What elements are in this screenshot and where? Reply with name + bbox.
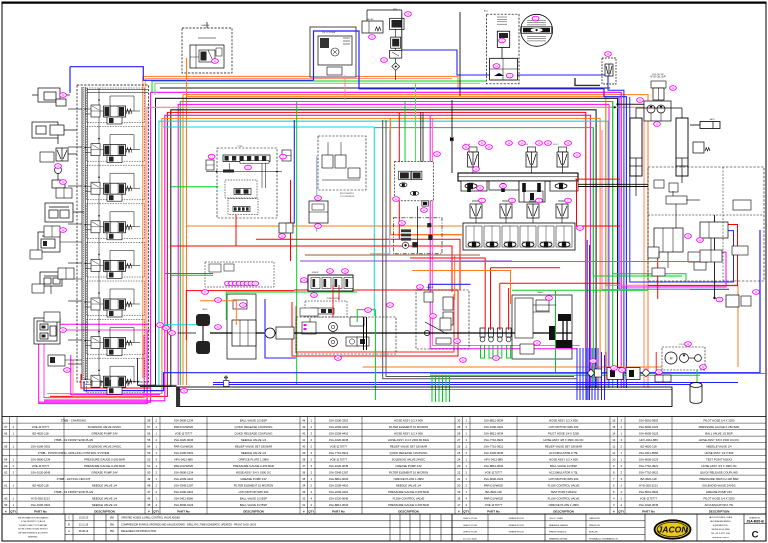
wire	[213, 384, 700, 386]
svg-text:JSA-6600-0123: JSA-6600-0123	[639, 431, 659, 435]
wire	[256, 239, 460, 290]
valve stack T4	[390, 18, 404, 29]
valve spool glyph	[486, 242, 498, 247]
balloon label	[236, 281, 243, 286]
wire	[44, 107, 644, 399]
svg-text:TEST POINT M16X2: TEST POINT M16X2	[706, 457, 732, 461]
wire	[508, 288, 510, 330]
wire	[186, 58, 188, 96]
valve section	[466, 226, 482, 247]
oil drum B12	[690, 383, 702, 404]
svg-text:53: 53	[147, 451, 151, 455]
wire	[438, 375, 440, 402]
wire	[300, 260, 512, 262]
svg-text:RELIEF VALVE SET 180 BAR: RELIEF VALVE SET 180 BAR	[545, 444, 582, 448]
wire	[70, 67, 314, 81]
svg-text:NEEDLE VALVE 1/4: NEEDLE VALVE 1/4	[92, 503, 118, 507]
wire	[39, 324, 148, 403]
wire	[410, 258, 485, 330]
svg-text:JSA-0106-3301: JSA-0106-3301	[329, 418, 349, 422]
svg-text:65: 65	[4, 444, 8, 448]
wire	[430, 373, 766, 375]
balloon label	[565, 198, 572, 203]
wire	[605, 352, 607, 368]
test block M7 (dash-dot)	[393, 218, 442, 254]
title block	[2, 513, 766, 515]
valve bank section 1	[87, 88, 145, 123]
svg-text:PAR-D1VW020: PAR-D1VW020	[484, 496, 504, 500]
wire	[602, 130, 690, 290]
svg-text:PILOT SUPPLY: PILOT SUPPLY	[340, 193, 355, 195]
wire	[402, 50, 608, 84]
wire	[445, 375, 447, 402]
svg-text:51: 51	[147, 464, 151, 468]
svg-text:NOT BE COPIED OR USED WITHOUT: NOT BE COPIED OR USED WITHOUT	[18, 529, 48, 531]
valve section	[550, 181, 578, 191]
svg-text:63: 63	[4, 464, 8, 468]
svg-text:JSA-6600-0123: JSA-6600-0123	[484, 477, 504, 481]
wire	[398, 112, 400, 239]
svg-text:CTRL: CTRL	[237, 146, 243, 148]
svg-text:IS THE PROPERTY OF JACON: IS THE PROPERTY OF JACON	[21, 520, 46, 523]
svg-text:42: 42	[302, 431, 306, 435]
svg-text:JSA-6600-0123: JSA-6600-0123	[174, 503, 194, 507]
balloon label	[335, 356, 342, 361]
svg-text:www jacon com au: www jacon com au	[712, 537, 729, 539]
pilot row B4a (dashed)	[305, 301, 347, 317]
wire	[597, 348, 599, 400]
balloon label	[169, 331, 176, 336]
balloon label	[700, 365, 707, 370]
wire	[657, 240, 659, 299]
wire	[658, 252, 660, 258]
valve section	[489, 181, 519, 190]
wire	[332, 285, 334, 317]
valve spool glyph	[504, 242, 516, 247]
mid sub-block	[519, 181, 545, 202]
svg-text:JTMB - CHARGING: JTMB - CHARGING	[61, 418, 87, 422]
svg-text:VOE-1170777: VOE-1170777	[640, 496, 658, 500]
balloon label	[229, 281, 236, 286]
wire	[144, 79, 146, 378]
svg-text:BALL VALVE 1/2 BSP: BALL VALVE 1/2 BSP	[240, 496, 267, 500]
svg-text:JSA-0106-3301: JSA-0106-3301	[484, 425, 504, 429]
wire	[143, 76, 458, 88]
valve bank section 4	[87, 204, 145, 239]
svg-text:20: 20	[457, 483, 461, 487]
svg-text:JTMB - LIFTING CIRCUIT: JTMB - LIFTING CIRCUIT	[57, 477, 91, 481]
svg-text:ORIFICE PLATE 1.2MM: ORIFICE PLATE 1.2MM	[393, 477, 424, 481]
svg-text:50: 50	[147, 470, 151, 474]
svg-text:HOSE ASSY 1/2 X 800: HOSE ASSY 1/2 X 800	[549, 457, 578, 461]
svg-text:JSA-0106-3301: JSA-0106-3301	[31, 444, 51, 448]
svg-text:GREASE PUMP 24V: GREASE PUMP 24V	[395, 464, 421, 468]
valve spool glyph	[540, 242, 552, 247]
svg-text:QTY: QTY	[463, 509, 469, 513]
wire	[68, 262, 82, 264]
wire	[442, 375, 444, 402]
wire	[140, 110, 596, 388]
svg-text:46: 46	[147, 496, 151, 500]
svg-text:JSA-1020-0045: JSA-1020-0045	[329, 496, 349, 500]
svg-text:VOE-1170777: VOE-1170777	[32, 464, 50, 468]
wire	[296, 294, 454, 352]
svg-text:QUICK RELEASE COUPLING: QUICK RELEASE COUPLING	[235, 425, 273, 429]
svg-text:JSA-1020-0045: JSA-1020-0045	[31, 470, 51, 474]
svg-text:SOL C: SOL C	[553, 144, 559, 146]
svg-text:CHECK PLUS: CHECK PLUS	[463, 518, 478, 520]
balloon label	[163, 326, 170, 331]
svg-text:39: 39	[302, 451, 306, 455]
wire	[585, 348, 587, 400]
balloon label	[280, 154, 287, 159]
shaft pump symbols	[480, 328, 485, 337]
svg-text:HYD-550-2213: HYD-550-2213	[639, 483, 658, 487]
wire	[39, 92, 622, 402]
svg-text:JSA-3345-1287: JSA-3345-1287	[329, 470, 349, 474]
balloon label	[454, 339, 461, 344]
svg-text:28: 28	[457, 431, 461, 435]
svg-text:HYD OIL S/P: HYD OIL S/P	[652, 74, 664, 76]
svg-text:BALL VALVE 1/2 BSP: BALL VALVE 1/2 BSP	[550, 464, 577, 468]
wire	[152, 81, 486, 92]
valve row B1	[308, 275, 353, 291]
wire	[589, 245, 591, 400]
svg-text:FLOW CONTROL VALVE: FLOW CONTROL VALVE	[548, 496, 580, 500]
cylinder M11b	[676, 118, 688, 176]
svg-text:NEEDLE VALVE 1/4: NEEDLE VALVE 1/4	[241, 451, 267, 455]
svg-text:GREGORY: GREGORY	[589, 518, 601, 520]
svg-text:BZ-4520-118: BZ-4520-118	[485, 490, 502, 494]
svg-text:VOE-1170777: VOE-1170777	[330, 457, 348, 461]
svg-text:SOLENOID VALVE 24VDC: SOLENOID VALVE 24VDC	[88, 444, 122, 448]
svg-text:VOE-1170777: VOE-1170777	[485, 503, 503, 507]
wire	[390, 118, 462, 234]
svg-text:GREASE PUMP 24V: GREASE PUMP 24V	[91, 431, 117, 435]
svg-text:JSA-0900-1234: JSA-0900-1234	[174, 418, 194, 422]
wire	[499, 283, 501, 330]
wire	[507, 345, 511, 358]
wire	[686, 199, 700, 201]
balloon label	[421, 208, 428, 213]
wire	[344, 75, 346, 100]
svg-text:JSA-8812-0034: JSA-8812-0034	[329, 503, 349, 507]
gauge block M6 (dashed)	[394, 162, 433, 201]
wire	[305, 254, 480, 256]
remote valve L12	[58, 268, 74, 279]
svg-text:C: C	[752, 530, 759, 541]
solenoid valve T7 (dashed)	[602, 58, 616, 84]
svg-text:VOE-1170777: VOE-1170777	[330, 444, 348, 448]
wire	[71, 355, 160, 395]
svg-text:JSA-7710-0921: JSA-7710-0921	[639, 464, 659, 468]
wire	[68, 185, 82, 187]
svg-text:RELIEF: RELIEF	[366, 19, 374, 21]
table column dividers	[299, 417, 301, 514]
transmission B6	[512, 295, 572, 359]
pilot comp right of M1	[282, 150, 291, 161]
balloon label	[64, 368, 71, 373]
wire	[81, 374, 150, 388]
svg-text:BZ-4520-118: BZ-4520-118	[32, 483, 49, 487]
rock drill block M13 (dashed)	[648, 167, 764, 281]
valve cluster L5	[45, 203, 73, 222]
wire	[575, 178, 620, 180]
wire	[138, 98, 618, 388]
valve L3	[56, 148, 68, 161]
wire	[594, 348, 596, 400]
svg-text:HOSE ASSY 1/2 X 800: HOSE ASSY 1/2 X 800	[549, 418, 578, 422]
drive coupling B3	[265, 328, 275, 338]
wire	[160, 87, 610, 89]
svg-text:PART No: PART No	[642, 509, 655, 513]
valve M12	[693, 142, 704, 153]
valve block B4c	[350, 317, 364, 326]
svg-text:13: 13	[612, 438, 616, 442]
solenoid valve	[556, 204, 568, 218]
wire	[127, 380, 129, 386]
svg-text:61: 61	[4, 483, 8, 487]
svg-text:HFX-3412-889: HFX-3412-889	[484, 457, 503, 461]
steering block B7	[227, 294, 256, 359]
svg-text:JSA-2209-4410: JSA-2209-4410	[329, 431, 349, 435]
svg-text:10.02.20: 10.02.20	[79, 517, 89, 520]
wire	[428, 284, 430, 290]
svg-text:AXLE: AXLE	[202, 308, 208, 311]
svg-text:16: 16	[612, 418, 616, 422]
svg-text:RESERVED.: RESERVED.	[28, 536, 38, 538]
balloon label	[181, 389, 188, 394]
wire	[578, 186, 648, 188]
svg-text:24: 24	[457, 457, 461, 461]
svg-text:BALL VALVE 1/2 BSP: BALL VALVE 1/2 BSP	[240, 503, 267, 507]
balloon label	[405, 12, 412, 17]
svg-text:DRAWING DETAIL: DRAWING DETAIL	[549, 537, 568, 540]
svg-text:RELIEF VALVE SET 180 BAR: RELIEF VALVE SET 180 BAR	[390, 444, 427, 448]
signature grid	[389, 514, 391, 541]
balloon label	[477, 186, 484, 191]
svg-text:PRV: PRV	[393, 9, 398, 11]
balloon label	[301, 278, 308, 283]
svg-text:HEATHER GREEN: HEATHER GREEN	[549, 524, 568, 527]
JACON logo	[696, 514, 698, 541]
solenoid bank M8-M9 manifold	[458, 173, 578, 181]
balloon label	[506, 141, 513, 146]
wire	[187, 96, 606, 388]
svg-text:NEEDLE VALVE 1/4: NEEDLE VALVE 1/4	[706, 444, 732, 448]
balloon label	[202, 290, 209, 295]
svg-text:MJR-200: MJR-200	[589, 532, 599, 534]
svg-text:FILTER ELEMENT 10 MICRON: FILTER ELEMENT 10 MICRON	[234, 483, 273, 487]
svg-text:JSA-1020-0045: JSA-1020-0045	[484, 451, 504, 455]
svg-text:30: 30	[457, 418, 461, 422]
svg-text:ORIFICE PLATE 1.2MM: ORIFICE PLATE 1.2MM	[548, 503, 579, 507]
inner dark pair	[363, 317, 365, 350]
svg-text:JSA-5501-9902: JSA-5501-9902	[639, 418, 659, 422]
svg-text:NEEDLE VALVE 1/4: NEEDLE VALVE 1/4	[396, 483, 422, 487]
wire blue loop T2	[314, 31, 605, 97]
wire	[601, 352, 603, 400]
valve M13c	[654, 180, 664, 188]
wire	[586, 240, 588, 400]
wire	[591, 348, 593, 400]
wire	[459, 12, 461, 96]
wire	[68, 223, 82, 225]
pilot cluster above B7 (dashed)	[205, 262, 274, 287]
wire	[489, 345, 493, 358]
wire	[604, 355, 606, 400]
svg-text:55: 55	[147, 438, 151, 442]
wire	[579, 348, 581, 400]
balloon label	[315, 224, 322, 229]
wire	[608, 84, 624, 388]
wire	[68, 300, 82, 302]
balloon label	[225, 281, 232, 286]
svg-text:44: 44	[302, 418, 306, 422]
svg-text:JSA-1020-0045: JSA-1020-0045	[174, 438, 194, 442]
gear detail B6	[520, 344, 534, 354]
balloon label	[240, 281, 247, 286]
valve spool glyph	[468, 242, 480, 247]
svg-text:JSA-0900-1234: JSA-0900-1234	[31, 457, 51, 461]
svg-text:33: 33	[302, 490, 306, 494]
balloon label	[215, 298, 222, 303]
main valve bank VB1	[77, 85, 149, 382]
balloon label	[212, 59, 219, 64]
svg-text:67: 67	[4, 425, 8, 429]
wire	[187, 225, 463, 227]
wire	[576, 348, 578, 400]
pilot valve M4	[309, 201, 328, 223]
svg-text:27: 27	[457, 438, 461, 442]
cylinder M11a	[630, 118, 642, 176]
wire	[210, 332, 572, 334]
valve section	[484, 226, 500, 247]
wire	[490, 268, 492, 330]
wire	[430, 115, 577, 349]
wire	[91, 380, 93, 386]
accumulator unit T5 (dashed)	[487, 14, 520, 84]
svg-text:HYD MOTOR OMS 200: HYD MOTOR OMS 200	[239, 490, 269, 494]
svg-text:JSA-8812-0034: JSA-8812-0034	[329, 477, 349, 481]
sol pilot glyph	[450, 137, 454, 141]
svg-text:NEEDLE VALVE 1/4: NEEDLE VALVE 1/4	[92, 483, 118, 487]
valve section	[461, 181, 487, 191]
svg-text:CHECK PLUS: CHECK PLUS	[463, 532, 478, 534]
manifold M1 (dashed)	[217, 148, 277, 218]
brake valve cluster B5 (dashed)	[416, 290, 469, 349]
svg-text:49: 49	[147, 477, 151, 481]
wire	[635, 176, 637, 196]
balloon label	[232, 281, 239, 286]
solenoid valve	[469, 147, 477, 152]
wire	[675, 204, 677, 228]
svg-text:SOLENOID VALVE 24VDC: SOLENOID VALVE 24VDC	[702, 483, 736, 487]
wire	[171, 274, 213, 276]
balloon label	[381, 58, 388, 63]
svg-text:59: 59	[4, 503, 8, 507]
wire	[696, 370, 698, 382]
wire	[69, 67, 71, 93]
svg-text:JSA-2209-4410: JSA-2209-4410	[329, 483, 349, 487]
svg-text:12: 12	[612, 444, 616, 448]
svg-text:PILOT HOSE 1/4 X 3200: PILOT HOSE 1/4 X 3200	[703, 496, 734, 500]
balloon label	[654, 122, 661, 127]
svg-text:HOSE ASSY 1/4 X 2300 90 DEG: HOSE ASSY 1/4 X 2300 90 DEG	[388, 438, 429, 442]
node junction	[713, 297, 715, 299]
wire	[180, 102, 612, 389]
wire	[498, 345, 502, 358]
svg-text:PRESSURE GAUGE 0-250 BAR: PRESSURE GAUGE 0-250 BAR	[84, 464, 125, 468]
svg-text:31: 31	[302, 503, 306, 507]
svg-text:EQUIPMENT P/L: EQUIPMENT P/L	[713, 525, 729, 527]
svg-text:JTMB - 01 FRONT END PLAN: JTMB - 01 FRONT END PLAN	[54, 490, 93, 494]
valve bank section 5	[87, 242, 145, 277]
wire	[100, 380, 102, 386]
wire	[593, 128, 682, 276]
balloon label	[619, 368, 626, 373]
wire	[454, 255, 456, 300]
balloon label	[60, 93, 67, 98]
svg-text:PRESSURE GAUGE 0-250 BAR: PRESSURE GAUGE 0-250 BAR	[388, 503, 429, 507]
wire	[165, 273, 213, 275]
wire	[84, 230, 760, 391]
wire	[68, 146, 82, 148]
wire	[163, 126, 374, 128]
wire	[401, 12, 403, 50]
svg-text:PAR-D1VW020: PAR-D1VW020	[174, 444, 194, 448]
wire	[44, 115, 590, 401]
pump detail B4	[294, 332, 330, 334]
svg-text:DESCRIPTION: DESCRIPTION	[398, 509, 419, 513]
wire	[140, 386, 177, 388]
wire	[159, 121, 608, 388]
svg-text:38: 38	[302, 457, 306, 461]
pilot comp left of M1	[206, 160, 214, 170]
svg-text:TRANS: TRANS	[537, 291, 544, 294]
svg-text:48: 48	[147, 483, 151, 487]
pump group B4 (dashed)	[296, 317, 396, 354]
svg-text:JSA-7710-0921: JSA-7710-0921	[484, 444, 504, 448]
inner dashed partition M13	[722, 167, 724, 281]
svg-text:PILOT HOSE 1/4 X 3200: PILOT HOSE 1/4 X 3200	[703, 418, 734, 422]
balloon label	[499, 38, 506, 43]
wire	[137, 358, 139, 385]
filter B10	[655, 375, 671, 382]
svg-text:SOLENOID VALVE 24VDC: SOLENOID VALVE 24VDC	[392, 457, 426, 461]
wire	[667, 252, 669, 268]
wire	[73, 360, 152, 397]
balloon label	[500, 184, 507, 189]
valve block B4b	[302, 322, 316, 334]
valve M13b	[733, 200, 751, 210]
wire	[604, 97, 626, 388]
svg-text:JTMB - 01 FRONT END PLAN: JTMB - 01 FRONT END PLAN	[54, 438, 93, 442]
pump P1	[329, 323, 338, 332]
wire	[290, 180, 292, 261]
svg-text:QUICK RELEASE COUPLING: QUICK RELEASE COUPLING	[700, 470, 738, 474]
wire	[588, 348, 590, 400]
balloon label	[506, 73, 513, 78]
svg-text:RELEASED FOR PRODUCTION: RELEASED FOR PRODUCTION	[121, 530, 156, 533]
control block L8	[34, 318, 60, 344]
wire	[404, 102, 406, 162]
wire	[491, 267, 561, 269]
svg-text:SEVEN HILLS NSW: SEVEN HILLS NSW	[711, 529, 729, 531]
svg-text:JSA-6600-0123: JSA-6600-0123	[639, 425, 659, 429]
wire	[68, 363, 82, 365]
solenoid valve	[559, 147, 567, 152]
